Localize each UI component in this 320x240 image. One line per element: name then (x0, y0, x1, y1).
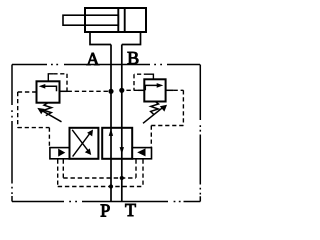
counterbalance valve V1 pilot hat (48, 74, 53, 82)
junction dot on line A (108, 89, 113, 94)
solenoid S2 box (132, 148, 151, 159)
solenoid S1 box (50, 148, 70, 159)
pilot line under valve left outer dashed (57, 160, 59, 187)
enclosure border top (12, 64, 200, 66)
pilot line V2 to solenoid dashed (150, 126, 152, 148)
directional valve U1 left position square (70, 128, 99, 159)
pilot line V2 to line B dashed (122, 89, 138, 91)
pilot line V1 bottom horizontal dashed (18, 127, 50, 129)
enclosure border left (11, 65, 13, 202)
wire V2 right solid stub (166, 89, 174, 91)
wire line A vertical (110, 45, 112, 202)
wire V2 inlet solid stub (138, 89, 144, 91)
pilot line lower horizontal dashed (58, 186, 143, 188)
pilot line V1 left side dashed (18, 91, 37, 93)
pilot line V2 bottom horizontal dashed (151, 125, 183, 127)
counterbalance valve V2 pilot hat (148, 74, 153, 79)
wire cylinder right port to node B (122, 32, 141, 45)
enclosure border bottom (12, 201, 200, 203)
pilot line under valve left inner dashed (62, 160, 64, 179)
counterbalance valve V1 spring (44, 103, 52, 116)
pilot line V2 right dashed (173, 89, 183, 91)
pilot line V2 down right dashed (182, 90, 184, 125)
svg-text:T: T (125, 200, 136, 218)
cylinder C1 rod (63, 15, 118, 25)
directional valve U1 right position square (102, 128, 132, 159)
svg-text:P: P (100, 201, 110, 218)
directional valve U1 straight path arrow up (109, 129, 113, 136)
counterbalance valve V2 adjust arrow (143, 107, 163, 123)
directional valve U1 crossed path arrows (73, 133, 91, 157)
solenoid S1 triangle (58, 149, 65, 157)
junction dot line B upper (120, 176, 124, 180)
counterbalance valve V2 internal flow arrow (145, 85, 160, 90)
cylinder C1 body (85, 8, 146, 32)
pilot line V1 outlet to line A dashed (68, 90, 112, 92)
svg-text:A: A (86, 49, 99, 69)
counterbalance valve V2 spring (151, 102, 159, 115)
wire line B vertical (121, 45, 123, 202)
junction dot on line B (119, 88, 124, 93)
cylinder C1 piston (117, 8, 119, 32)
enclosure border right (199, 65, 201, 202)
pilot line under valve right inner dashed (135, 160, 137, 179)
junction dot line A lower (109, 184, 113, 188)
wire cylinder left port to node A (90, 32, 111, 45)
solenoid S2 triangle (137, 148, 145, 156)
pilot line upper horizontal dashed (63, 177, 136, 179)
pilot line V1 down left dashed (17, 92, 19, 128)
directional valve U1 straight path arrow down (120, 147, 124, 154)
wire V1 outlet solid stub (60, 90, 68, 92)
pilot line under valve right outer dashed (142, 160, 144, 187)
counterbalance valve V2 square (144, 79, 165, 101)
pilot line V1 to solenoid dashed (48, 128, 50, 148)
counterbalance valve V1 adjust arrow (42, 110, 62, 122)
counterbalance valve V1 square (37, 81, 60, 102)
counterbalance valve V1 internal flow arrow (42, 86, 57, 91)
